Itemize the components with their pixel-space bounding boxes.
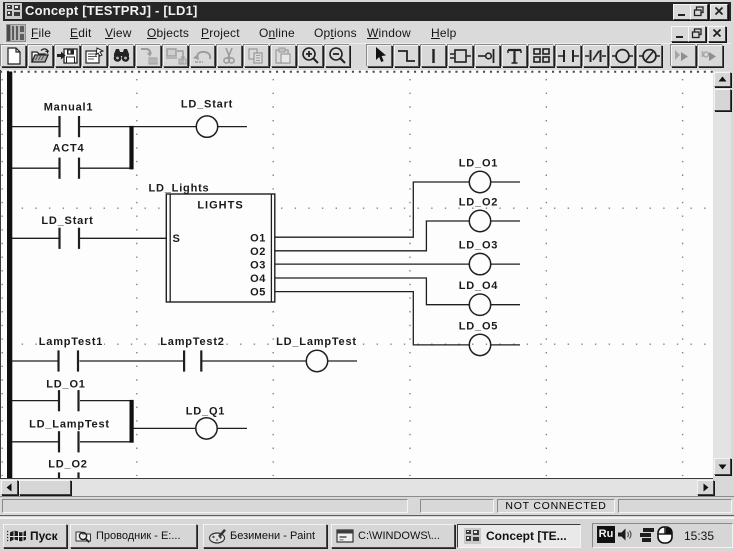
mdi buttons	[671, 26, 689, 42]
toolbar button StepTrans2 (disabled)	[698, 45, 723, 67]
label LD_Q1	[185, 405, 226, 418]
coil LD_LampTest	[306, 350, 327, 371]
contact ACT4	[58, 158, 80, 179]
net O5	[275, 292, 469, 345]
net O1 out	[491, 181, 520, 183]
coil LD_O2	[469, 210, 490, 231]
task button explorer	[70, 524, 197, 548]
menu bar	[3, 21, 731, 43]
wire rung1 to coil	[134, 126, 197, 128]
label LD_O4	[459, 279, 499, 292]
wire rung4 after coil	[328, 360, 357, 362]
grid row y344	[8, 343, 712, 345]
vertical scrollbar	[713, 71, 731, 476]
contact LD_Start	[58, 228, 80, 249]
svg-text:O4: O4	[250, 273, 266, 285]
toolbar button StepTrans (disabled)	[671, 45, 696, 67]
mdi document icon	[6, 24, 26, 42]
grid column x682	[682, 79, 684, 476]
toolbar button Blocks88	[529, 45, 554, 67]
title buttons	[673, 4, 691, 20]
coil LD_O1	[469, 171, 490, 192]
net O5 out	[491, 344, 520, 346]
svg-text:O5: O5	[250, 287, 266, 299]
toolbar button NCoil	[637, 45, 662, 67]
task button dos	[331, 524, 455, 548]
label ACT4	[51, 142, 86, 155]
label LD_O1 (contact)	[46, 378, 86, 391]
svg-text:LampTest2: LampTest2	[160, 336, 224, 348]
toolbar button Export (disabled)	[163, 45, 188, 67]
wire rung4 mid2	[202, 360, 306, 362]
svg-text:O3: O3	[250, 260, 266, 272]
toolbar button Save	[55, 45, 80, 67]
label LD_Start (contact)	[41, 214, 94, 227]
svg-text:LD_Q1: LD_Q1	[186, 406, 225, 418]
wire rung5 bottom mid	[80, 441, 130, 443]
toolbar button ZoomIn	[298, 45, 323, 67]
svg-text:O2: O2	[250, 246, 266, 258]
label LampTest1	[38, 335, 104, 348]
toolbar button Find	[109, 45, 134, 67]
label LD_O2 (contact)	[48, 458, 88, 471]
system tray	[592, 523, 733, 548]
drawing area	[1, 70, 713, 478]
contact Manual1	[58, 116, 80, 137]
tray clock	[684, 529, 714, 543]
grid column x273	[272, 79, 274, 476]
wire rung1 mid	[80, 126, 130, 128]
label LD_O5	[459, 319, 499, 332]
toolbar button Import (disabled)	[136, 45, 161, 67]
junction bar rung1-2	[129, 126, 133, 169]
svg-text:LD_O5: LD_O5	[459, 320, 498, 332]
task button concept (active)	[457, 524, 581, 548]
toolbar button Undo (disabled)	[190, 45, 215, 67]
toolbar button Contact	[556, 45, 581, 67]
coil LD_O3	[469, 253, 490, 274]
contact LD_LampTest	[58, 431, 80, 452]
toolbar	[3, 43, 731, 72]
contact LD_O1	[58, 390, 80, 411]
net O2	[275, 221, 469, 251]
task button paint	[203, 524, 327, 548]
net O3 out	[491, 263, 520, 265]
toolbar button Text	[502, 45, 527, 67]
wire rung3 left	[12, 237, 59, 239]
label LD_LampTest (contact)	[29, 418, 110, 431]
label LD_LampTest (coil)	[276, 335, 357, 348]
status bar	[0, 496, 734, 516]
toolbar button VLink	[421, 45, 446, 67]
coil LD_Q1	[196, 418, 217, 439]
wire rung3 to block	[80, 237, 166, 239]
label LD_O2	[459, 196, 499, 209]
wire rung5 top left	[12, 400, 58, 402]
grid column x136	[136, 79, 138, 476]
wire rung1 after coil	[218, 126, 247, 128]
net O4	[275, 278, 469, 305]
svg-text:LD_O1: LD_O1	[46, 379, 85, 391]
toolbar button Properties	[82, 45, 107, 67]
wire rung2 left	[12, 167, 59, 169]
wire rung4 mid1	[80, 360, 184, 362]
grid column x546	[545, 79, 547, 476]
coil LD_O5	[469, 334, 490, 355]
start button	[3, 524, 67, 548]
tray energy icon	[638, 527, 655, 543]
coil LD_Start	[196, 116, 217, 137]
toolbar button Coil	[610, 45, 635, 67]
grid column x410	[409, 79, 411, 476]
toolbar button Link	[394, 45, 419, 67]
svg-text:LD_Lights: LD_Lights	[149, 182, 210, 194]
wire rung2 mid	[80, 167, 130, 169]
svg-text:Manual1: Manual1	[44, 101, 94, 113]
wire rung5 after coil	[217, 427, 247, 429]
coil LD_O4	[469, 294, 490, 315]
svg-text:LIGHTS: LIGHTS	[197, 200, 243, 212]
menu items	[31, 26, 51, 40]
grid row y208	[8, 207, 712, 209]
left power rail	[7, 72, 12, 479]
label LampTest2	[160, 335, 226, 348]
toolbar button Paste (disabled)	[271, 45, 296, 67]
net O3	[275, 263, 469, 265]
net O2 out	[491, 220, 520, 222]
contact LampTest1	[57, 350, 79, 371]
contact LD_O2 partial	[58, 472, 80, 478]
tray speaker	[617, 527, 633, 542]
svg-text:LD_LampTest: LD_LampTest	[29, 419, 110, 431]
wire rung5 top mid	[80, 400, 130, 402]
svg-text:ACT4: ACT4	[53, 142, 85, 154]
toolbar button NCContact	[583, 45, 608, 67]
tray Ru indicator	[597, 526, 615, 543]
svg-text:LD_O4: LD_O4	[459, 280, 499, 292]
wire rung5 out to coil	[134, 427, 196, 429]
svg-text:LampTest1: LampTest1	[39, 336, 103, 348]
title bar	[3, 2, 731, 21]
app icon	[5, 3, 22, 19]
toolbar button FBlock	[448, 45, 473, 67]
toolbar button ZoomOut	[325, 45, 350, 67]
label LD_Start (coil)	[181, 98, 234, 111]
net O4 out	[491, 304, 520, 306]
wire rung4 left	[12, 360, 58, 362]
svg-text:O1: O1	[250, 232, 266, 244]
svg-text:S: S	[173, 233, 181, 245]
wire rung1 left	[12, 126, 59, 128]
top page boundary dashed	[0, 71, 713, 73]
function block LIGHTS	[166, 194, 274, 302]
wire rung5 bottom left	[12, 441, 58, 443]
toolbar button New	[1, 45, 26, 67]
label Manual1	[42, 101, 95, 114]
contact LampTest2	[183, 350, 202, 371]
svg-text:LD_Start: LD_Start	[181, 98, 233, 110]
taskbar	[0, 515, 734, 552]
toolbar button Cut (disabled)	[217, 45, 242, 67]
svg-text:LD_O3: LD_O3	[459, 240, 498, 252]
junction bar rung5	[130, 400, 134, 443]
label LD_O3	[459, 239, 499, 252]
tray mouse icon	[656, 526, 674, 544]
label LD_Lights	[149, 182, 210, 195]
toolbar button Open	[28, 45, 53, 67]
toolbar button CoilLink	[475, 45, 500, 67]
label LD_O1	[459, 157, 499, 170]
svg-text:LD_Start: LD_Start	[41, 215, 93, 227]
svg-text:LD_O2: LD_O2	[48, 459, 87, 471]
grid column x2	[1, 79, 3, 476]
toolbar button Select	[367, 45, 392, 67]
net O1	[275, 182, 469, 237]
horizontal scrollbar	[0, 478, 713, 496]
toolbar button Copy (disabled)	[244, 45, 269, 67]
svg-text:LD_LampTest: LD_LampTest	[276, 336, 357, 348]
svg-text:LD_O1: LD_O1	[459, 157, 498, 169]
svg-text:LD_O2: LD_O2	[459, 196, 498, 208]
